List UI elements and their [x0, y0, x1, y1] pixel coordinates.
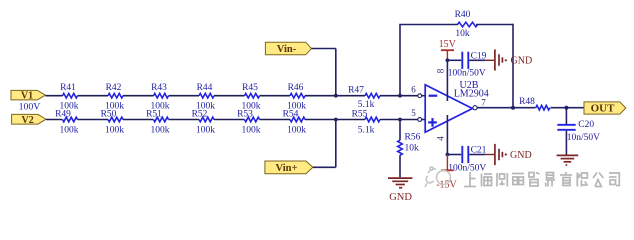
svg-text:C20: C20: [578, 120, 594, 130]
ground at C19: [485, 49, 532, 70]
pin 6: [411, 84, 425, 97]
svg-text:R42: R42: [106, 83, 122, 93]
resistor R49: [55, 109, 79, 135]
svg-text:100V: 100V: [19, 102, 41, 113]
svg-text:Vin-: Vin-: [277, 44, 297, 55]
ground at R56: [388, 178, 412, 203]
svg-text:100k: 100k: [196, 126, 215, 136]
power -15V: [436, 155, 457, 191]
svg-text:GND: GND: [510, 150, 532, 161]
svg-text:R55: R55: [352, 109, 368, 119]
wire feedback left vertical: [399, 25, 401, 96]
resistor R48: [519, 97, 550, 110]
capacitor C19: [447, 51, 486, 78]
svg-text:R44: R44: [197, 83, 213, 93]
pin 5: [411, 108, 425, 122]
svg-text:15V: 15V: [439, 39, 457, 50]
svg-text:R45: R45: [242, 83, 258, 93]
junction bottom rail at Vin+: [334, 118, 338, 122]
resistor R46: [287, 83, 306, 111]
svg-text:100k: 100k: [105, 126, 124, 136]
junction pin8/C19: [446, 58, 450, 62]
port Vin-: [265, 42, 311, 55]
resistor R42: [105, 83, 124, 111]
svg-text:4: 4: [436, 136, 446, 141]
svg-text:10k: 10k: [455, 29, 470, 39]
wire Vin+ to bottom rail: [313, 120, 336, 168]
wire top rail: [45, 95, 417, 97]
port OUT: [584, 102, 626, 115]
svg-text:R47: R47: [348, 85, 364, 95]
pin 8 power: [436, 60, 448, 101]
resistor R43: [151, 83, 170, 111]
svg-text:7: 7: [481, 97, 486, 107]
svg-text:OUT: OUT: [591, 103, 616, 115]
resistor R40: [455, 10, 478, 39]
svg-text:100n/50V: 100n/50V: [448, 163, 486, 173]
wire feedback top right: [476, 24, 513, 26]
svg-text:5: 5: [411, 108, 416, 118]
resistor R54: [283, 109, 307, 135]
resistor R47: [348, 85, 380, 110]
svg-text:GND: GND: [389, 192, 412, 203]
resistor R56: [398, 120, 421, 178]
resistor R52: [192, 109, 216, 135]
svg-text:R46: R46: [288, 83, 304, 93]
wire bottom rail: [46, 119, 418, 121]
pin 4 power: [436, 115, 448, 155]
svg-text:R56: R56: [405, 132, 421, 142]
wire feedback right vertical: [512, 24, 514, 108]
wire feedback top left: [399, 24, 458, 26]
watermark logo: [425, 167, 451, 187]
capacitor C21: [447, 145, 486, 173]
svg-text:100k: 100k: [287, 126, 306, 136]
svg-text:10n/50V: 10n/50V: [567, 133, 600, 143]
svg-text:-15V: -15V: [436, 179, 457, 190]
svg-text:100k: 100k: [242, 126, 261, 136]
wire output: [477, 107, 584, 109]
ground at C20: [557, 155, 579, 165]
pin 7 output: [473, 97, 486, 109]
svg-text:C21: C21: [471, 145, 487, 155]
svg-text:100k: 100k: [151, 126, 170, 136]
svg-text:V1: V1: [21, 91, 33, 102]
svg-text:R41: R41: [60, 83, 76, 93]
svg-text:R49: R49: [55, 109, 71, 119]
ground at C21: [485, 144, 532, 165]
junction pin4/C21: [446, 153, 450, 157]
svg-text:6: 6: [411, 84, 416, 94]
junction top rail at feedback: [398, 94, 402, 98]
resistor R45: [242, 83, 261, 111]
resistor R53: [237, 109, 261, 135]
svg-text:100k: 100k: [60, 126, 79, 136]
svg-text:GND: GND: [511, 56, 533, 67]
junction top rail at Vin-: [334, 94, 338, 98]
resistor R51: [146, 109, 170, 135]
svg-text:C19: C19: [471, 51, 487, 61]
watermark text: [464, 172, 619, 187]
svg-text:R53: R53: [237, 109, 253, 119]
svg-text:100n/50V: 100n/50V: [448, 69, 486, 79]
power +15V: [439, 39, 457, 61]
svg-text:5.1k: 5.1k: [358, 125, 375, 135]
svg-text:Vin+: Vin+: [276, 163, 298, 174]
svg-text:10k: 10k: [405, 144, 420, 154]
svg-text:R43: R43: [151, 83, 167, 93]
junction bottom rail at R56: [398, 118, 402, 122]
resistor R55: [352, 109, 380, 135]
junction output/C20: [564, 106, 568, 110]
wire Vin- to top rail: [312, 49, 336, 96]
svg-text:R52: R52: [192, 109, 208, 119]
resistor R50: [101, 109, 125, 135]
capacitor C20: [557, 108, 600, 155]
resistor R44: [196, 83, 215, 111]
port Vin+: [265, 161, 313, 174]
svg-text:R40: R40: [455, 10, 471, 20]
op-amp U2B LM2904: [425, 80, 489, 132]
svg-text:V2: V2: [21, 115, 33, 126]
resistor R41: [60, 83, 79, 111]
svg-text:8: 8: [436, 68, 446, 73]
svg-text:5.1k: 5.1k: [358, 100, 375, 110]
svg-text:R48: R48: [519, 97, 535, 107]
port V2: [12, 114, 46, 125]
svg-text:R54: R54: [283, 109, 299, 119]
port V1: [11, 90, 45, 101]
junction feedback/output: [511, 106, 515, 110]
svg-text:R50: R50: [101, 109, 117, 119]
svg-text:R51: R51: [146, 109, 162, 119]
